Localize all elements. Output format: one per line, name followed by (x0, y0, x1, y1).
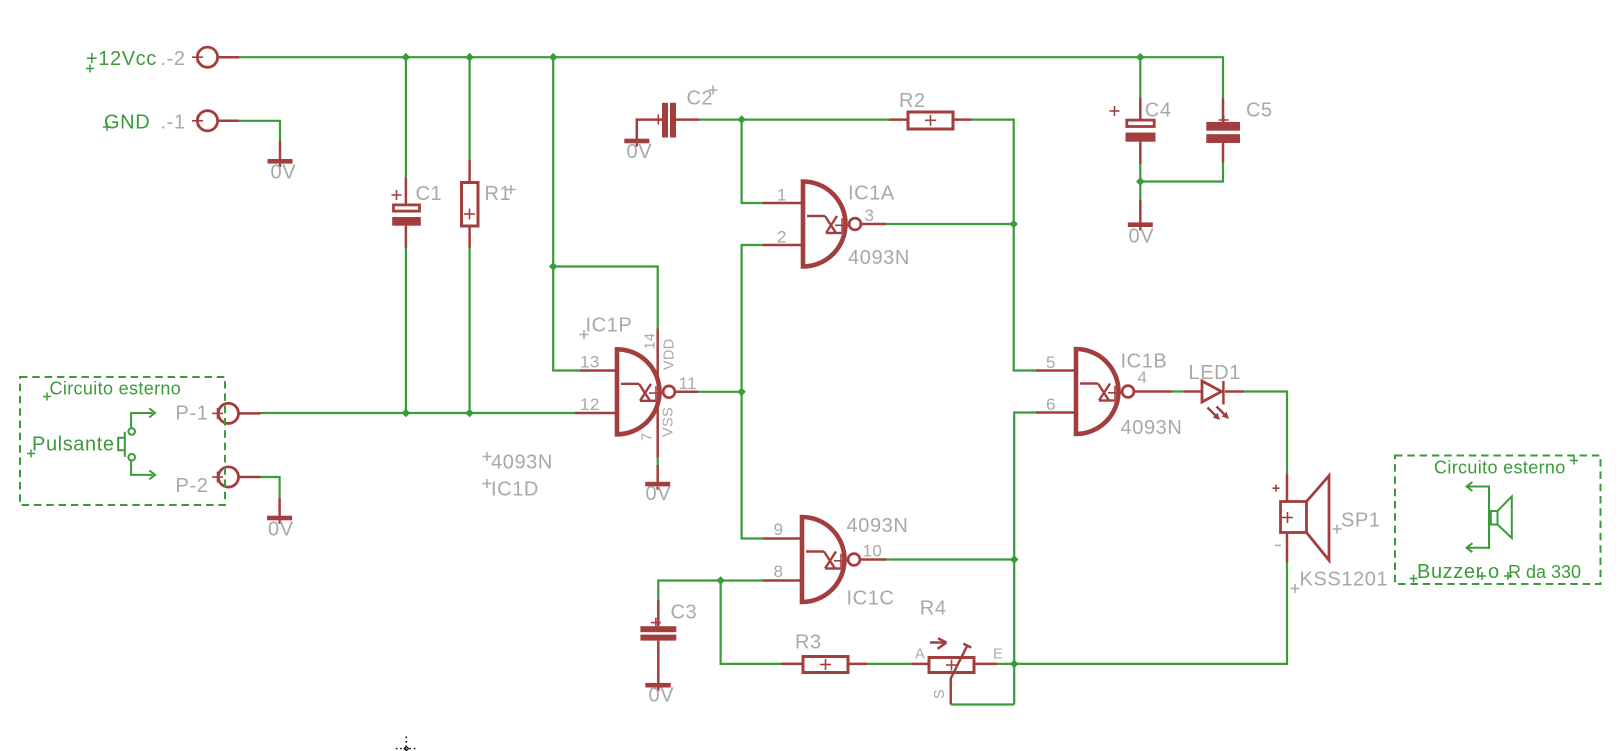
origin cross KSS1201 (1291, 584, 1300, 593)
svg-text:IC1A: IC1A (848, 183, 895, 205)
ground 0V below IC1P VSS (645, 465, 671, 505)
op-amp gate IC1C 4093N (763, 517, 886, 602)
svg-text:o: o (1488, 561, 1500, 583)
svg-text:.-2: .-2 (161, 48, 186, 70)
svg-text:13: 13 (580, 353, 600, 372)
svg-text:C4: C4 (1145, 100, 1172, 122)
wire IC1A pin2 / IC1P out / IC1C pin9 vertical (742, 245, 764, 539)
origin cross IC1D (483, 479, 492, 488)
svg-text:0V: 0V (1129, 226, 1155, 248)
wire rail branch x553 down to pin13 (553, 57, 581, 370)
wire R2 right down to IC1B pin5 (971, 120, 1038, 371)
junction IC1C out (1010, 555, 1019, 564)
svg-text:0V: 0V (627, 141, 653, 163)
origin cross 4093N (483, 452, 492, 461)
wire IC1C output to vertical (884, 558, 1014, 560)
wire IC1P VSS stub (657, 457, 659, 466)
trimmer R4 (912, 638, 998, 704)
origin cross C2 (709, 86, 718, 95)
svg-text:C1: C1 (416, 183, 443, 205)
svg-text:0V: 0V (646, 483, 672, 505)
origin cross Buzzer (1410, 575, 1418, 583)
junction C3 pin8 (716, 576, 725, 585)
svg-text:Buzzer: Buzzer (1417, 561, 1483, 583)
junction rail R1 (465, 53, 474, 62)
svg-text:KSS1201: KSS1201 (1300, 569, 1389, 591)
wire C1 branch from rail (405, 57, 407, 180)
svg-text:IC1D: IC1D (491, 479, 539, 501)
wire R4 E to junction (996, 663, 1014, 665)
origin cross circuito right (1570, 457, 1578, 465)
svg-text:SP1: SP1 (1341, 510, 1381, 532)
capacitor C1 (392, 178, 421, 248)
wire IC1B pin6 vertical down (1014, 413, 1037, 705)
capacitor C2 with ground (624, 103, 699, 163)
op-amp gate IC1P power gate (575, 329, 698, 458)
svg-text:R2: R2 (899, 90, 926, 112)
svg-text:.-1: .-1 (161, 112, 186, 134)
origin cross circuito left (43, 393, 51, 401)
svg-text:12: 12 (580, 395, 600, 414)
svg-text:8: 8 (774, 562, 784, 581)
svg-text:IC1P: IC1P (586, 315, 633, 337)
wire speaker return horizontal (1014, 562, 1287, 664)
origin cross R1 (507, 185, 516, 194)
svg-text:0V: 0V (271, 162, 297, 184)
svg-text:VSS: VSS (661, 407, 677, 437)
svg-text:4093N: 4093N (848, 247, 910, 269)
svg-text:5: 5 (1046, 353, 1056, 372)
wire P-2 pad to ground (260, 477, 280, 499)
wire P-1 net to IC1P pin12 (260, 412, 576, 414)
capacitor C3 with ground (640, 600, 676, 707)
svg-text:11: 11 (679, 374, 697, 393)
wire C4 node to ground (1139, 182, 1141, 202)
junction C4 C5 node (1136, 177, 1145, 186)
svg-text:4093N: 4093N (847, 515, 909, 537)
wire C3 pin8 horizontal (658, 581, 764, 602)
svg-text:10: 10 (863, 542, 883, 561)
junction rail x553 (549, 53, 558, 62)
svg-text:Pulsante: Pulsante (32, 434, 115, 456)
origin cross Pulsante (27, 450, 35, 458)
junction rail C4 (1136, 53, 1145, 62)
wire LED cathode to speaker plus (1243, 392, 1287, 476)
junction P1 net C1 (402, 409, 411, 418)
svg-text:P-2: P-2 (176, 475, 209, 497)
junction IC1P out (737, 388, 746, 397)
svg-text:Circuito esterno: Circuito esterno (1434, 458, 1566, 478)
svg-text:C5: C5 (1246, 100, 1273, 122)
LED LED1 (1184, 381, 1245, 420)
resistor R1 (462, 160, 479, 248)
ground 0V below C4 node (1128, 200, 1154, 248)
svg-text:P-1: P-1 (176, 403, 209, 425)
pad -2 +12Vcc (192, 47, 239, 67)
svg-text:IC1C: IC1C (847, 588, 895, 610)
svg-text:A: A (915, 647, 925, 663)
wire C3 junction down to R3 (721, 581, 804, 664)
wire junction down to IC1A pin1 (742, 120, 764, 203)
junction rail C1 (402, 53, 411, 62)
svg-text:Circuito esterno: Circuito esterno (50, 379, 182, 399)
svg-text:7: 7 (640, 433, 656, 441)
svg-text:6: 6 (1046, 395, 1056, 414)
origin cross +12Vcc (86, 65, 94, 73)
wire C4 bottom node (1140, 161, 1223, 182)
svg-text:0V: 0V (268, 519, 294, 541)
speaker SP1 (1273, 474, 1330, 562)
origin cross GND (103, 123, 111, 131)
pad P-2 (212, 467, 261, 487)
wire IC1P output to junction (697, 391, 742, 393)
origin cross SP1 (1333, 525, 1342, 534)
op-amp gate IC1A 4093N (763, 182, 886, 267)
svg-text:14: 14 (643, 333, 659, 350)
svg-text:LED1: LED1 (1189, 362, 1241, 384)
svg-text:2: 2 (777, 228, 787, 247)
svg-text:R1: R1 (485, 183, 512, 205)
svg-text:R4: R4 (920, 598, 947, 620)
junction C2 R2 (737, 115, 746, 124)
svg-text:3: 3 (865, 206, 875, 225)
dashed box Circuito esterno left (20, 377, 225, 505)
wire R1 branch from rail (469, 57, 471, 161)
wire R4 S return (951, 703, 1014, 705)
buzzer speaker symbol green (1467, 482, 1512, 552)
svg-text:R da 330: R da 330 (1508, 562, 1581, 582)
wire +12V top rail (238, 57, 1223, 98)
dashed box Circuito esterno right (1395, 456, 1601, 585)
svg-text:VDD: VDD (662, 338, 678, 370)
wire R1 bottom to P1 net (469, 247, 471, 413)
svg-text:1: 1 (777, 186, 787, 205)
svg-text:9: 9 (774, 520, 784, 539)
svg-text:C2: C2 (687, 88, 714, 110)
svg-text:GND: GND (104, 112, 150, 134)
wire C1 bottom to P1 net (405, 247, 407, 413)
capacitor C5 (1206, 99, 1240, 163)
junction IC1A out (1009, 220, 1018, 229)
sheet origin cross dotted (396, 737, 417, 751)
origin cross IC1P (580, 330, 589, 339)
pushbutton Pulsante (118, 408, 155, 479)
svg-text:R3: R3 (795, 632, 822, 654)
resistor R2 (889, 112, 972, 129)
wire C4 branch from rail (1139, 57, 1141, 99)
svg-text:4093N: 4093N (1121, 417, 1183, 439)
op-amp gate IC1B 4093N (1036, 349, 1172, 434)
origin cross R da 330 (1504, 572, 1512, 580)
resistor R3 (781, 657, 867, 673)
junction P1 net R1 (465, 409, 474, 418)
pad -1 GND (192, 111, 239, 131)
wire GND pad to ground (238, 121, 280, 142)
junction R4 E speaker (1010, 660, 1019, 669)
wire C2 to junction to R2 (698, 118, 890, 120)
origin cross o (1478, 572, 1486, 580)
svg-text:S: S (932, 689, 948, 699)
svg-text:+12Vcc: +12Vcc (86, 48, 157, 70)
wire R3 to R4 (866, 663, 913, 665)
svg-text:E: E (993, 647, 1003, 663)
wire IC1B out LED to speaker (1170, 390, 1185, 392)
capacitor C4 (1110, 98, 1156, 164)
wire VDD branch to IC1P pin14 (553, 267, 658, 330)
ground 0V below P-2 (267, 498, 294, 541)
svg-text:C3: C3 (671, 602, 698, 624)
svg-text:4093N: 4093N (491, 452, 553, 474)
wire IC1A output to vertical (884, 223, 1014, 225)
junction VDD branch (549, 262, 558, 271)
pad P-1 (212, 403, 261, 423)
svg-text:4: 4 (1138, 368, 1148, 387)
ground 0V below GND pad (268, 141, 297, 184)
svg-text:0V: 0V (649, 685, 675, 707)
